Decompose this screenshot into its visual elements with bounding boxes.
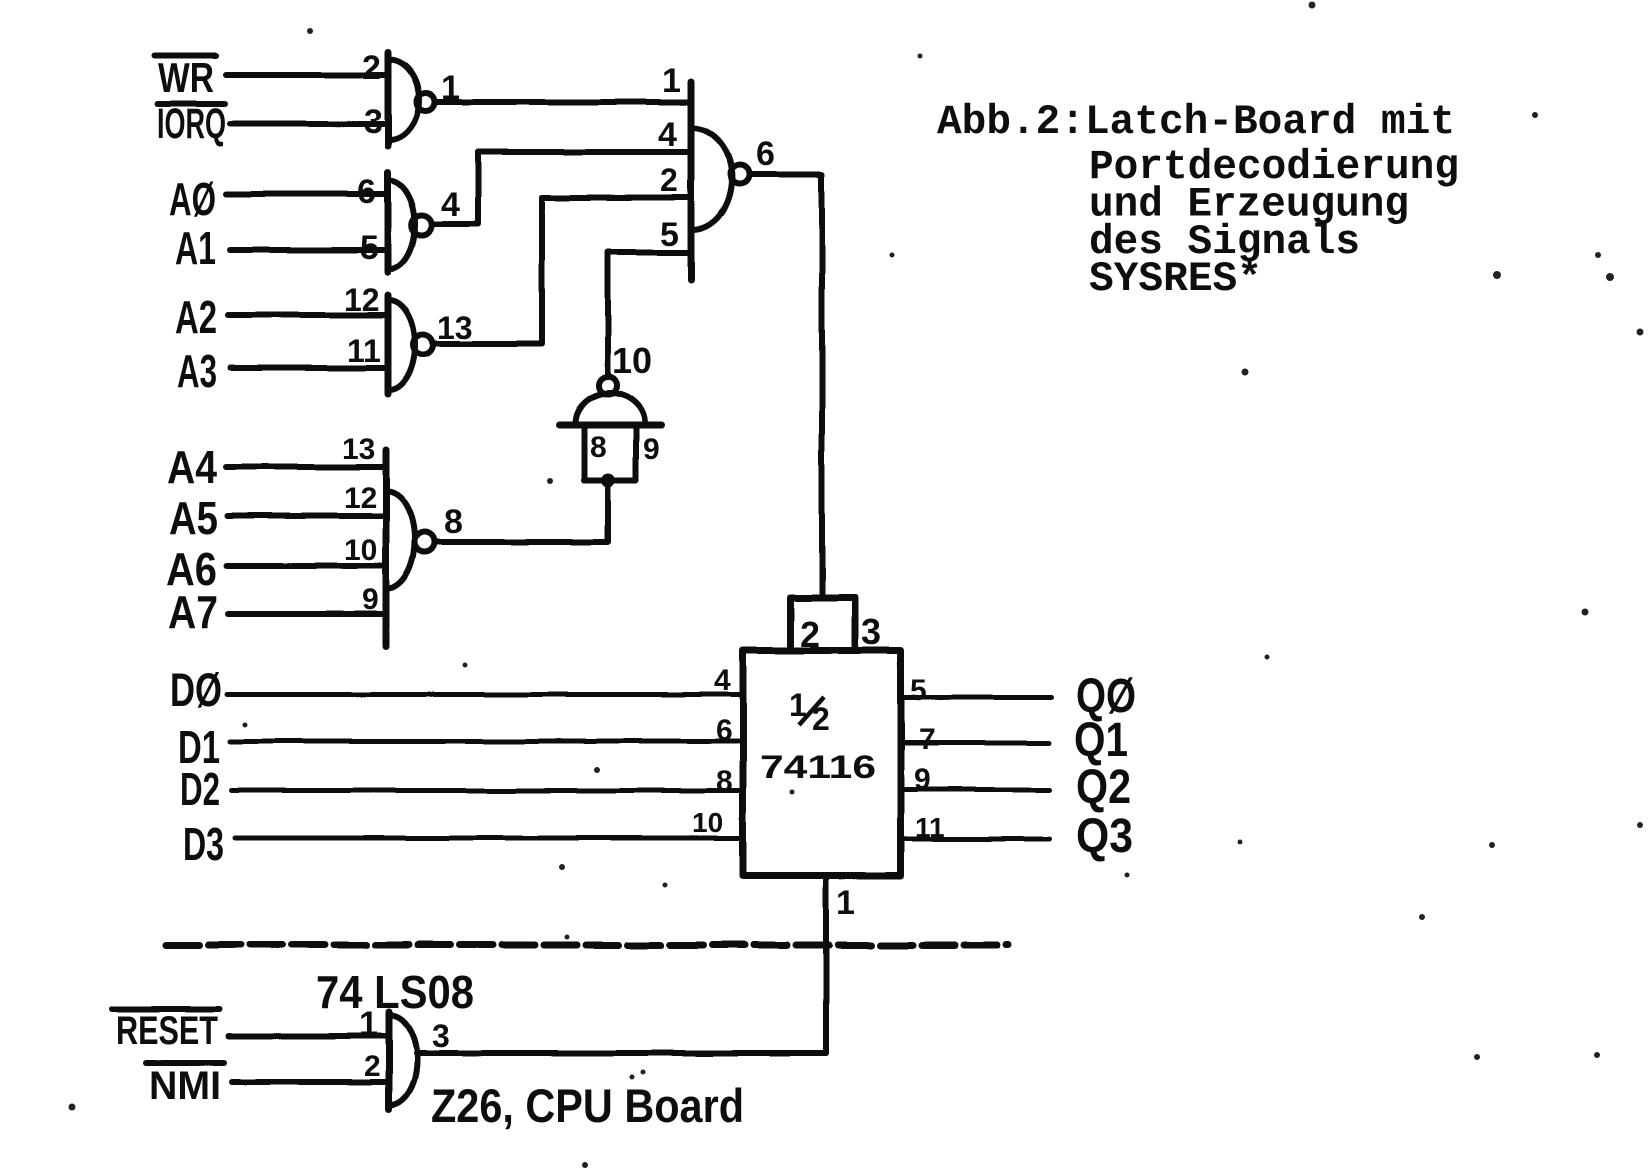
wire D2 to pin 8 — [232, 788, 743, 793]
svg-text:3: 3 — [861, 611, 881, 652]
svg-text:2: 2 — [660, 162, 678, 198]
svg-text:74 LS08: 74 LS08 — [316, 966, 474, 1018]
wire U3 output pin 13 to U6 pin 2 — [433, 198, 691, 345]
value 1/2 in U7 — [789, 687, 830, 737]
svg-text:2: 2 — [362, 49, 381, 87]
latch U7 74116 body — [743, 650, 901, 876]
svg-text:5: 5 — [660, 216, 679, 254]
wire D0 to pin 4 — [227, 692, 743, 697]
svg-text:11: 11 — [915, 812, 945, 843]
and gate U8 74LS08 — [389, 1012, 417, 1109]
wire A5 input pin 12 — [227, 513, 386, 519]
svg-text:A3: A3 — [177, 345, 217, 397]
nand gate U5 (inverter, rotated, pins 8,9 -> 10) — [559, 377, 662, 481]
wire pin 5 to Q0 — [901, 695, 1051, 700]
nand gate U1 (WR/IORQ) — [388, 53, 435, 146]
junction U5 inputs tied — [601, 473, 615, 487]
svg-text:1: 1 — [836, 884, 855, 922]
svg-text:6: 6 — [756, 135, 775, 173]
wire IORQ input pin 3 — [230, 121, 388, 127]
nand gate U2 (A0/A1) — [388, 172, 432, 272]
svg-text:4: 4 — [658, 116, 677, 154]
svg-text:8: 8 — [444, 503, 463, 541]
svg-text:A1: A1 — [175, 222, 216, 274]
svg-text:13: 13 — [342, 433, 375, 466]
svg-text:2: 2 — [812, 701, 830, 737]
svg-text:12: 12 — [344, 482, 377, 515]
svg-text:WR: WR — [158, 54, 214, 101]
wire A4 input pin 13 — [226, 464, 386, 470]
nand gate U6 (4-input, output 6) — [691, 82, 749, 280]
svg-text:2: 2 — [364, 1050, 381, 1083]
svg-text:1: 1 — [441, 69, 460, 107]
wire WR input pin 2 — [226, 72, 388, 78]
wire NMI input pin 2 — [232, 1079, 389, 1085]
wire U2 output pin 4 to U6 pin 4 — [432, 152, 691, 224]
wire U1 output pin 1 to U6 pin 1 — [435, 99, 692, 105]
svg-text:6: 6 — [716, 714, 733, 747]
wire A1 input pin 5 — [230, 247, 388, 253]
wire RESET input pin 1 — [229, 1033, 389, 1039]
svg-text:6: 6 — [357, 173, 376, 211]
latch U7 enable box pins 2,3 — [790, 598, 856, 651]
wire U8 output pin 3 — [416, 1051, 826, 1057]
svg-text:10: 10 — [344, 534, 377, 567]
svg-text:A7: A7 — [168, 586, 218, 638]
svg-text:1: 1 — [662, 62, 681, 100]
nand gate U3 (A2/A3) — [388, 295, 433, 394]
nand gate U4 (A4-A7 4-input) — [386, 450, 435, 646]
svg-text:9: 9 — [643, 433, 660, 466]
wire pin 11 to Q3 — [901, 837, 1050, 842]
svg-text:IORQ: IORQ — [157, 100, 226, 148]
svg-text:3: 3 — [364, 103, 383, 141]
svg-text:13: 13 — [437, 310, 473, 346]
wire A6 input pin 10 — [227, 563, 386, 569]
svg-text:RESET: RESET — [116, 1009, 218, 1053]
svg-text:8: 8 — [716, 765, 733, 798]
svg-text:Q1: Q1 — [1074, 714, 1128, 767]
wire U4 output pin 8 to U5 inputs — [435, 480, 608, 542]
svg-text:DØ: DØ — [170, 663, 222, 716]
overline RESET — [113, 1006, 220, 1012]
wire A2 input pin 12 — [228, 312, 388, 318]
svg-text:Abb.2:Latch-Board mit: Abb.2:Latch-Board mit — [937, 99, 1455, 146]
svg-text:4: 4 — [714, 664, 731, 697]
wire A3 input pin 11 — [230, 365, 388, 371]
svg-text:10: 10 — [612, 340, 652, 381]
svg-text:A4: A4 — [167, 441, 217, 493]
svg-text:4: 4 — [441, 186, 460, 224]
svg-text:NMI: NMI — [149, 1064, 221, 1108]
wire U5 output pin 10 to U6 pin 5 — [608, 253, 691, 377]
dashed separator line — [166, 942, 1008, 949]
svg-text:12: 12 — [344, 282, 380, 318]
svg-text:Q2: Q2 — [1076, 761, 1131, 814]
svg-text:A2: A2 — [175, 291, 217, 343]
wire pin 9 to Q2 — [901, 787, 1050, 792]
svg-text:A5: A5 — [169, 492, 218, 544]
wire A0 input pin 6 — [226, 191, 388, 197]
svg-text:3: 3 — [432, 1018, 450, 1054]
overline IORQ — [157, 101, 225, 107]
svg-text:5: 5 — [910, 674, 927, 707]
svg-text:9: 9 — [362, 583, 379, 616]
overline NMI — [146, 1060, 224, 1066]
wire D1 to pin 6 — [230, 739, 743, 744]
svg-text:SYSRES*: SYSRES* — [1089, 256, 1262, 303]
svg-text:7: 7 — [919, 723, 936, 756]
wire U6 output pin 6 to 74116 enable box — [749, 175, 822, 598]
svg-text:10: 10 — [692, 807, 723, 838]
svg-text:AØ: AØ — [169, 173, 216, 225]
svg-text:9: 9 — [914, 763, 931, 796]
overline WR — [155, 53, 216, 59]
svg-text:8: 8 — [590, 431, 607, 464]
svg-text:11: 11 — [347, 333, 381, 369]
svg-text:5: 5 — [360, 229, 379, 267]
svg-text:D2: D2 — [180, 763, 220, 815]
svg-text:D3: D3 — [183, 818, 224, 870]
svg-text:Q3: Q3 — [1076, 810, 1133, 863]
wire D3 to pin 10 — [235, 836, 743, 841]
svg-text:Z26, CPU Board: Z26, CPU Board — [431, 1079, 744, 1132]
wire pin 7 to Q1 — [901, 741, 1049, 746]
svg-text:74116: 74116 — [760, 749, 876, 785]
svg-text:2: 2 — [800, 614, 820, 655]
wire A7 input pin 9 — [228, 611, 386, 617]
wire U7 pin 1 down to U8 output — [823, 876, 829, 1054]
